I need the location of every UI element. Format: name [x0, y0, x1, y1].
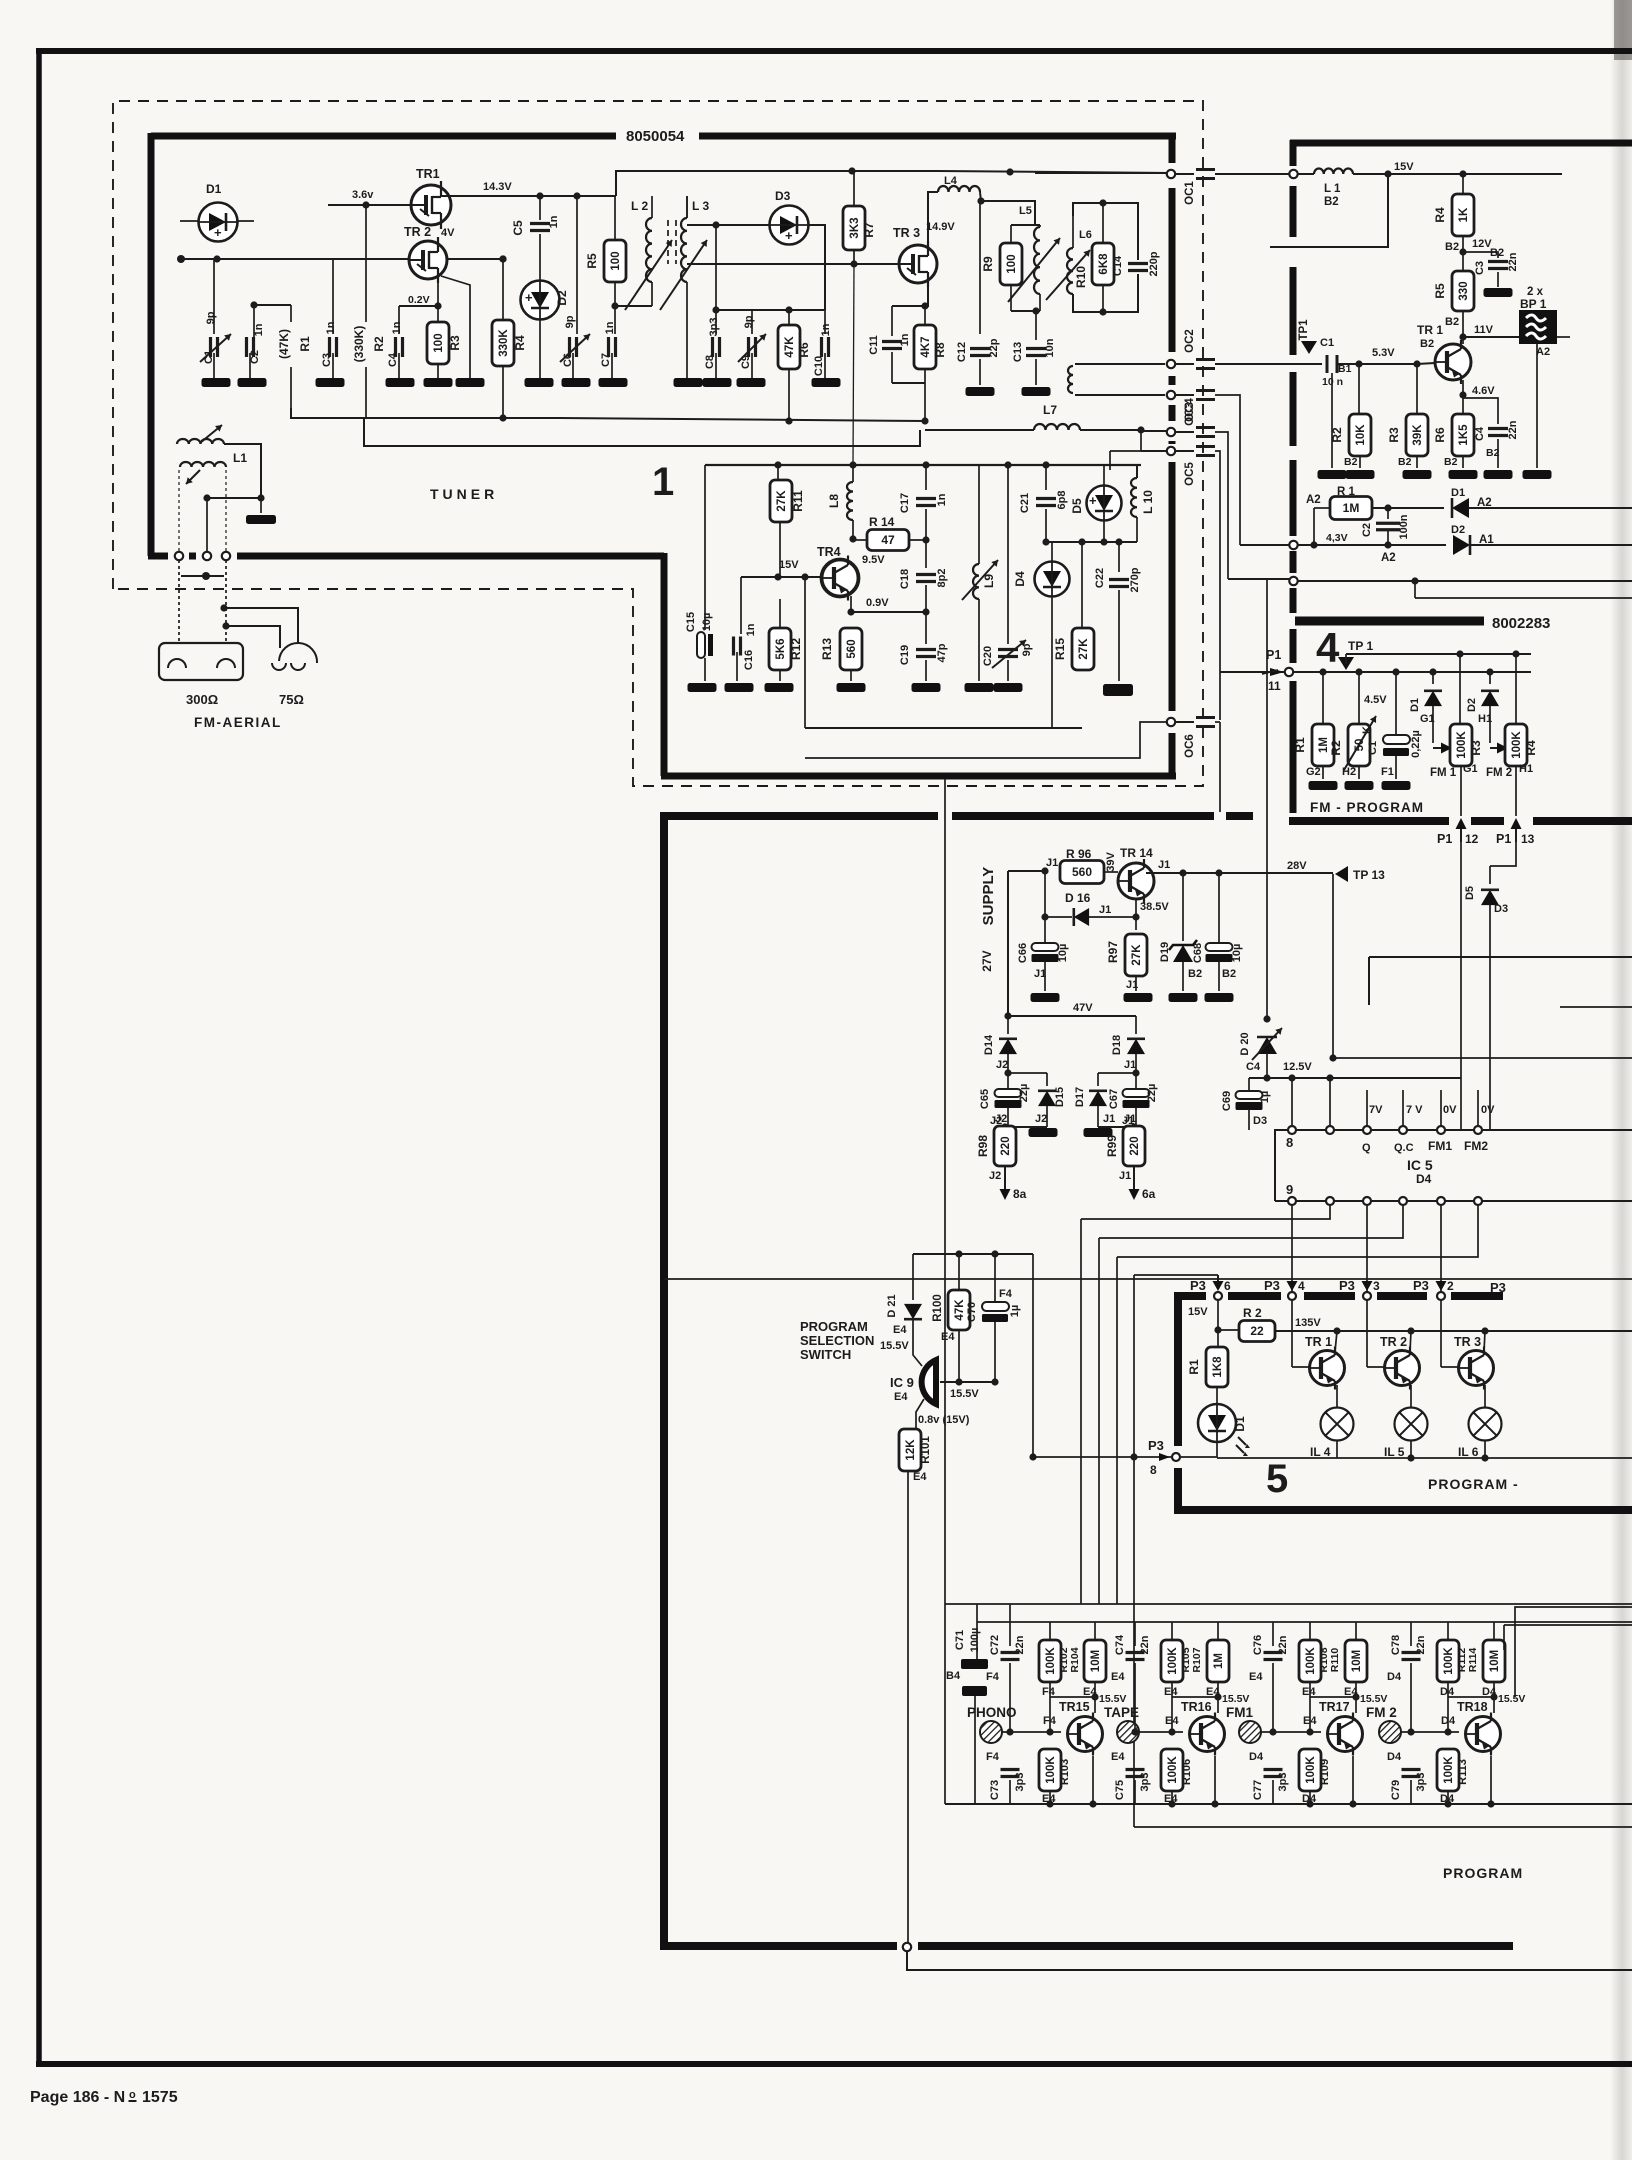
svg-text:560: 560	[846, 639, 858, 658]
svg-text:C68: C68	[1192, 943, 1204, 963]
wire FM 2 input row	[1401, 1731, 1459, 1733]
wire riser x1134	[1133, 1275, 1135, 1457]
svg-text:47: 47	[881, 533, 895, 547]
svg-text:4V: 4V	[441, 227, 455, 239]
wire block4 coupling 15V line	[1035, 172, 1171, 174]
wire TR14 base emitter	[1135, 899, 1137, 917]
svg-text:8050054: 8050054	[626, 128, 685, 145]
svg-text:R110: R110	[1329, 1648, 1341, 1673]
svg-text:D 20: D 20	[1239, 1032, 1251, 1055]
svg-text:1n: 1n	[936, 493, 948, 506]
svg-text:F4: F4	[999, 1288, 1013, 1300]
svg-text:F4: F4	[1043, 1715, 1057, 1727]
svg-text:FM1: FM1	[1226, 1705, 1253, 1720]
svg-text:E4: E4	[893, 1324, 907, 1336]
B2 block left edge segments	[1290, 140, 1297, 166]
svg-text:D19: D19	[1159, 942, 1171, 962]
wire TR16 emitter to rail	[1214, 1756, 1216, 1804]
diode D5	[1087, 486, 1122, 521]
wire block4 upper row	[1346, 653, 1531, 655]
svg-text:C74: C74	[1114, 1634, 1126, 1655]
svg-text:L7: L7	[1043, 403, 1057, 417]
capacitor C1 trimmer 9p	[213, 259, 215, 334]
svg-text:C11: C11	[868, 335, 880, 355]
svg-text:C67: C67	[1108, 1089, 1120, 1109]
tuner block outline left edge	[148, 133, 155, 556]
svg-text:L8: L8	[827, 494, 841, 508]
wire C65 D15 to R98	[1008, 1126, 1047, 1128]
svg-text:D1: D1	[1451, 487, 1465, 499]
svg-text:B2: B2	[1445, 316, 1459, 328]
svg-text:C8: C8	[704, 355, 716, 369]
svg-text:E4: E4	[1303, 1715, 1317, 1727]
wire IC9 lower lead	[916, 1399, 924, 1430]
coil L1 B2	[1314, 169, 1353, 175]
svg-text:1K5: 1K5	[1458, 424, 1470, 446]
svg-text:10K: 10K	[1355, 424, 1367, 446]
capacitor C74 22n	[1134, 1622, 1136, 1646]
svg-text:TR 2: TR 2	[404, 225, 431, 239]
svg-text:J1: J1	[1124, 1059, 1136, 1071]
wire L2 R5 bottom junction	[614, 282, 616, 306]
svg-text:F1: F1	[1381, 766, 1394, 778]
wire bottom rail 1	[945, 1803, 1632, 1805]
IC5 bus top line	[1275, 1130, 1632, 1201]
svg-text:IL 6: IL 6	[1458, 1445, 1479, 1459]
coil L9 variable	[973, 564, 979, 599]
resistor R5 100	[604, 240, 626, 282]
svg-text:SWITCH: SWITCH	[800, 1347, 851, 1362]
svg-text:D4: D4	[1387, 1751, 1402, 1763]
svg-text:100: 100	[610, 251, 622, 270]
svg-text:B2: B2	[1344, 456, 1358, 468]
svg-text:L4: L4	[944, 175, 958, 187]
svg-text:220: 220	[1000, 1136, 1012, 1155]
svg-text:300Ω: 300Ω	[186, 692, 218, 707]
svg-text:R1: R1	[1187, 1359, 1201, 1375]
wire L3 top to D3	[686, 196, 688, 218]
svg-text:D3: D3	[775, 189, 791, 203]
svg-text:R103: R103	[1059, 1759, 1071, 1785]
capacitor C15 10u riser	[704, 465, 706, 630]
capacitor C7 1n	[614, 306, 616, 334]
capacitor C18 8p2	[925, 540, 927, 568]
capacitor C9 trimmer 9p	[751, 310, 753, 334]
svg-text:4K7: 4K7	[920, 336, 932, 357]
wire vertical feed x945	[944, 779, 946, 1804]
svg-text:PROGRAM: PROGRAM	[1443, 1865, 1523, 1881]
transistor TR17	[1328, 1717, 1363, 1752]
svg-text:1K8: 1K8	[1212, 1356, 1224, 1378]
svg-text:10M: 10M	[1489, 1650, 1501, 1672]
wire to block4 connector	[1228, 578, 1289, 580]
svg-text:C15: C15	[685, 612, 697, 632]
svg-text:6K8: 6K8	[1098, 253, 1110, 275]
main lower block bus top edge	[661, 812, 938, 820]
svg-text:1µ: 1µ	[1009, 1305, 1021, 1317]
svg-text:1n: 1n	[253, 323, 265, 336]
svg-text:R3: R3	[1469, 740, 1483, 756]
wire OC4 lead	[1141, 430, 1166, 432]
svg-text:D15: D15	[1054, 1087, 1066, 1107]
svg-text:5.3V: 5.3V	[1372, 347, 1395, 359]
P3 pin 4 connector	[1288, 1292, 1296, 1300]
wire 15V base rail	[741, 576, 822, 578]
svg-text:C21: C21	[1019, 493, 1031, 513]
dashed enclosure 8050054 outline	[113, 101, 1203, 786]
svg-text:OC2: OC2	[1184, 329, 1196, 353]
resistor R8 4K7	[914, 325, 936, 369]
aerial coupling coil L1 secondary	[180, 462, 226, 467]
svg-text:22µ: 22µ	[1146, 1084, 1158, 1103]
wire loop risers down	[1080, 1219, 1082, 1604]
svg-text:C16: C16	[743, 650, 755, 670]
svg-text:8002283: 8002283	[1492, 615, 1550, 632]
capacitor C19 47p	[925, 612, 927, 644]
svg-text:D18: D18	[1111, 1035, 1123, 1055]
resistor R10 6K8	[1092, 243, 1114, 285]
resistor R1 1M block4	[1322, 672, 1324, 724]
diode D5 D3	[1489, 866, 1491, 884]
svg-text:D2: D2	[1451, 524, 1465, 536]
svg-text:C66: C66	[1017, 943, 1029, 963]
svg-text:L5: L5	[1019, 205, 1032, 217]
svg-text:C3: C3	[1474, 261, 1486, 275]
capacitor C4 1n	[398, 306, 400, 334]
tuner block outline top edge	[151, 133, 616, 140]
IC5 pin circles top	[1288, 1126, 1296, 1134]
capacitor C69 1u	[1248, 1078, 1250, 1091]
svg-text:TR 2: TR 2	[1380, 1335, 1407, 1349]
IC5 pin risers	[1291, 1078, 1293, 1126]
tuner block outline right edge segments with OC gaps	[1169, 136, 1176, 163]
svg-text:D14: D14	[983, 1034, 995, 1055]
resistor R2 330K bracket	[365, 205, 367, 322]
svg-text:3p3: 3p3	[1139, 1773, 1151, 1792]
svg-text:9.5V: 9.5V	[862, 554, 885, 566]
transistor TR15	[1068, 1717, 1103, 1752]
svg-text:C22: C22	[1094, 568, 1106, 588]
wire to 75 ohm dipole upper	[224, 608, 298, 643]
bottom thin wire to right edge	[907, 1951, 1632, 1970]
svg-text:G1: G1	[1463, 763, 1478, 775]
diode D1	[180, 220, 198, 222]
FM-PROGRAM block top bar 8002283	[1295, 617, 1484, 626]
svg-text:F4: F4	[986, 1671, 1000, 1683]
program block bottom connector	[903, 1943, 911, 1951]
svg-text:J2: J2	[996, 1059, 1008, 1071]
riser to D4 R15	[1081, 542, 1083, 630]
wire branch y598	[1414, 581, 1416, 598]
svg-text:1n: 1n	[820, 323, 832, 336]
svg-text:22n: 22n	[1014, 1635, 1026, 1654]
coil L10	[1131, 478, 1137, 517]
svg-text:D4: D4	[1387, 1671, 1402, 1683]
wire P1 13 to diode D3	[1490, 842, 1516, 866]
resistor R6 47K	[778, 325, 800, 369]
resistor R98 220	[994, 1126, 1016, 1166]
svg-text:B2: B2	[1444, 456, 1458, 468]
svg-text:L6: L6	[1079, 229, 1092, 241]
svg-text:P3: P3	[1190, 1278, 1206, 1293]
input connector FM1	[1239, 1721, 1261, 1743]
svg-text:TP 13: TP 13	[1353, 868, 1385, 882]
svg-text:FM 2: FM 2	[1366, 1705, 1397, 1720]
svg-text:P1: P1	[1496, 832, 1511, 846]
svg-text:27V: 27V	[980, 950, 994, 971]
wire 15.5V node FM 2	[1448, 1696, 1494, 1698]
svg-text:R3: R3	[448, 335, 462, 351]
svg-text:R100: R100	[932, 1294, 944, 1322]
wire OC2 signal line with C1 series	[1289, 363, 1322, 365]
diode D2 H1	[1489, 672, 1491, 684]
svg-text:R4: R4	[1524, 740, 1538, 756]
input connector PHONO	[980, 1721, 1002, 1743]
wire PHONO input row	[1002, 1731, 1061, 1733]
svg-text:C69: C69	[1221, 1091, 1233, 1111]
svg-text:B2: B2	[1420, 338, 1434, 350]
svg-text:R10: R10	[1074, 266, 1088, 288]
svg-text:R6: R6	[797, 342, 811, 358]
svg-text:4,3V: 4,3V	[1326, 532, 1348, 544]
svg-text:47V: 47V	[1073, 1002, 1093, 1014]
svg-text:B4: B4	[946, 1670, 961, 1682]
connector OC5	[1167, 447, 1175, 455]
transistor TR1 B2	[1435, 344, 1471, 380]
wire to aerial terminal 2	[206, 498, 208, 551]
resistor R1 1K8	[1217, 1330, 1219, 1347]
ground J2 supply	[1029, 1128, 1058, 1137]
svg-text:4: 4	[1316, 624, 1340, 671]
connector OC1	[1167, 170, 1175, 178]
resistor R114 10M	[1493, 1622, 1495, 1640]
svg-text:G2: G2	[1306, 766, 1321, 778]
resistor R97 27K	[1125, 934, 1147, 976]
wire OC1 line inside tuner	[938, 171, 1172, 173]
transformer core dashes L2 L3	[667, 220, 669, 264]
wire TR3 source to R8	[892, 282, 928, 306]
svg-text:IL 5: IL 5	[1384, 1445, 1405, 1459]
svg-text:1K: 1K	[1458, 207, 1470, 222]
svg-text:8: 8	[1286, 1135, 1293, 1150]
wire D3 to C10 column	[809, 225, 825, 310]
svg-text:7 V: 7 V	[1406, 1104, 1423, 1116]
svg-text:C77: C77	[1252, 1780, 1264, 1800]
svg-text:100K: 100K	[1305, 1756, 1317, 1784]
diode D20 variable	[1257, 1037, 1277, 1054]
svg-text:SUPPLY: SUPPLY	[980, 867, 997, 926]
wire OC4 outside segment	[1215, 432, 1228, 579]
wire right block top	[1369, 956, 1632, 958]
wire C11 R8 bottom	[892, 382, 925, 384]
svg-text:C14: C14	[1112, 255, 1124, 276]
svg-text:B2: B2	[1490, 247, 1504, 259]
wire R9 L5 bottom	[1011, 310, 1040, 312]
wire TR1 base	[328, 204, 410, 206]
svg-text:C17: C17	[899, 493, 911, 513]
wire 15.5V node TAPE	[1172, 1696, 1218, 1698]
svg-text:4: 4	[1298, 1279, 1305, 1293]
wire TR15 emitter to rail	[1092, 1756, 1094, 1804]
wire 15V rail	[1289, 170, 1297, 178]
svg-text:10M: 10M	[1351, 1650, 1363, 1672]
wire rail to TR2 base	[410, 258, 503, 260]
svg-text:TR 1: TR 1	[1305, 1335, 1332, 1349]
resistor R9 100	[1000, 243, 1022, 285]
resistor R7 3K3	[843, 206, 865, 250]
wire program rail 1	[945, 1603, 1632, 1605]
svg-text:12: 12	[1465, 832, 1479, 846]
svg-text:R1: R1	[298, 336, 312, 352]
capacitor C4 22n	[1463, 398, 1498, 424]
trimmer arrow through L2	[625, 240, 672, 310]
svg-text:R98: R98	[976, 1135, 990, 1157]
svg-text:E4: E4	[1249, 1671, 1263, 1683]
svg-text:1n: 1n	[548, 215, 560, 228]
resistor R3 100	[427, 322, 449, 364]
transistor TR3 fet	[899, 245, 937, 283]
svg-text:C20: C20	[982, 646, 994, 666]
resistor R13 560	[840, 628, 862, 670]
svg-text:39K: 39K	[1412, 424, 1424, 446]
svg-text:FM 1: FM 1	[1430, 767, 1457, 779]
svg-text:IC 5: IC 5	[1407, 1157, 1433, 1173]
IC5 pin circles bottom	[1288, 1197, 1296, 1205]
capacitor C12 22p	[970, 347, 990, 350]
wire OC3 outside segment	[1215, 395, 1240, 545]
svg-text:15V: 15V	[1394, 161, 1414, 173]
svg-text:P3: P3	[1413, 1278, 1429, 1293]
svg-text:3p3: 3p3	[1415, 1773, 1427, 1792]
program block 5 top edge with P3 connector gaps	[1181, 1292, 1206, 1300]
resistor R103 100K	[1039, 1749, 1061, 1791]
svg-text:D4: D4	[1441, 1715, 1456, 1727]
P3 pin 8 connector	[1172, 1453, 1180, 1461]
svg-text:L 1: L 1	[1324, 183, 1341, 195]
program block 5 left edge	[1174, 1292, 1182, 1446]
svg-text:TR17: TR17	[1319, 1700, 1350, 1714]
svg-text:C71: C71	[954, 1630, 966, 1650]
diode D1 A2	[1452, 498, 1469, 518]
resistor R112 100K	[1447, 1622, 1449, 1640]
diode D18	[1135, 1016, 1137, 1034]
wire OC5 outside segment	[1215, 451, 1220, 720]
resistor R110 10M	[1355, 1622, 1357, 1640]
svg-text:100n: 100n	[1398, 514, 1410, 539]
svg-text:R 14: R 14	[869, 515, 895, 529]
tuner block outline bottom edge	[661, 773, 1176, 780]
wire P1 12 down	[1460, 842, 1462, 1130]
switch top rail	[913, 1253, 1033, 1255]
svg-text:B2: B2	[1445, 241, 1459, 253]
LED D1 block5	[1216, 1387, 1218, 1404]
page border frame	[36, 49, 42, 2066]
IC9 half-disc	[922, 1360, 936, 1404]
svg-text:C70: C70	[966, 1302, 978, 1322]
trimmer arrow L5	[1008, 238, 1060, 302]
resistor R108 100K	[1309, 1622, 1311, 1640]
svg-text:75Ω: 75Ω	[279, 692, 304, 707]
wire vertical from P1-11 line	[1266, 580, 1268, 1019]
junction R4 bus	[503, 417, 560, 419]
svg-text:C76: C76	[1252, 1635, 1264, 1655]
svg-text:J1: J1	[1099, 904, 1111, 916]
wire TR3 drain to L4	[927, 245, 929, 250]
wire long bus y421	[560, 418, 925, 421]
transistor TR2 block5	[1366, 1300, 1368, 1367]
svg-text:J1: J1	[1158, 859, 1170, 871]
capacitor C72 22n	[1009, 1604, 1011, 1646]
wire inner top rail	[705, 464, 1141, 466]
svg-text:R3: R3	[1387, 427, 1401, 443]
svg-text:FM - PROGRAM: FM - PROGRAM	[1310, 800, 1424, 815]
svg-text:1n: 1n	[604, 321, 616, 334]
svg-text:0.9V: 0.9V	[866, 597, 889, 609]
resistor R100 47K	[958, 1254, 960, 1290]
wire OC5 to lower area	[1110, 450, 1141, 452]
wire L6 R10 C14 bottom frame	[1073, 274, 1138, 312]
wire lower bus to L7	[364, 418, 920, 446]
capacitor C66 10u	[1044, 917, 1046, 943]
wire lower row y581	[1289, 577, 1297, 585]
svg-text:9p: 9p	[743, 315, 755, 328]
svg-text:FM2: FM2	[1464, 1139, 1488, 1153]
trimmer arrow through L3	[660, 240, 707, 310]
connector OC4	[1167, 428, 1175, 436]
svg-text:22: 22	[1250, 1324, 1264, 1338]
resistor R109 100K	[1299, 1749, 1321, 1791]
svg-text:D2: D2	[555, 290, 569, 306]
test point TP13	[1335, 866, 1348, 882]
svg-text:TR15: TR15	[1059, 1700, 1090, 1714]
aerial terminal 1	[175, 552, 183, 560]
svg-text:+: +	[214, 225, 222, 240]
svg-text:39V: 39V	[1105, 852, 1117, 872]
connector OC3	[1167, 391, 1175, 399]
transistor TR14	[1118, 863, 1154, 899]
connector arrow P1 13	[1515, 820, 1517, 842]
svg-text:100K: 100K	[1456, 731, 1468, 759]
svg-text:R5: R5	[1433, 283, 1447, 299]
transistor TR18	[1466, 1717, 1501, 1752]
svg-text:E4: E4	[1111, 1751, 1125, 1763]
svg-text:220p: 220p	[1148, 251, 1160, 276]
svg-text:R106: R106	[1181, 1759, 1193, 1785]
svg-text:15.5V: 15.5V	[1099, 1693, 1126, 1705]
resistor R6 1K5	[1462, 380, 1464, 395]
svg-text:L 3: L 3	[692, 199, 709, 213]
svg-text:TR 1: TR 1	[1417, 323, 1443, 337]
svg-text:P3: P3	[1339, 1278, 1355, 1293]
resistor R4 330K	[499, 255, 506, 262]
svg-text:R13: R13	[820, 638, 834, 660]
svg-text:P3: P3	[1264, 1278, 1280, 1293]
svg-text:330: 330	[1458, 281, 1470, 300]
svg-text:D1: D1	[206, 182, 222, 196]
svg-text:P3: P3	[1148, 1438, 1164, 1453]
svg-text:E4: E4	[894, 1391, 908, 1403]
capacitor C76 22n	[1272, 1622, 1274, 1646]
svg-text:22n: 22n	[1415, 1635, 1427, 1654]
svg-text:C5: C5	[511, 220, 525, 236]
svg-text:R8: R8	[933, 342, 947, 358]
svg-text:100K: 100K	[1443, 1647, 1455, 1675]
ground J1 supply	[1084, 1128, 1113, 1137]
svg-text:10n: 10n	[1044, 338, 1056, 357]
svg-text:R4: R4	[513, 335, 527, 351]
svg-text:3p3: 3p3	[1277, 1773, 1289, 1792]
wire R9 L5 top	[1011, 224, 1040, 226]
